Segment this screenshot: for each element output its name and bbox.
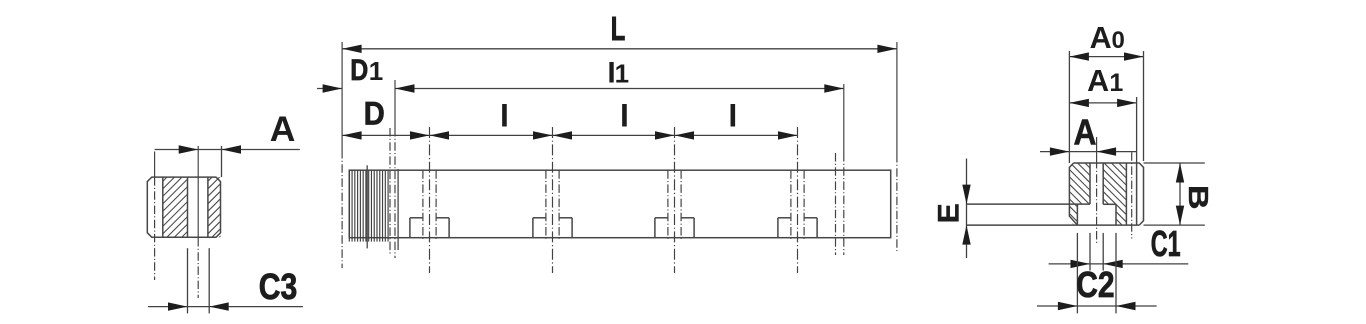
hole 3 wall hidden lines: [667, 170, 669, 241]
dimension A (right view): [1040, 151, 1137, 153]
dimension E: [966, 159, 968, 259]
dimension B: [1179, 163, 1181, 225]
dimension C3: [148, 306, 303, 308]
svg-text:L: L: [611, 11, 626, 48]
hole 4 wall hidden lines: [790, 170, 792, 241]
hole 3 counterbore tabs: [654, 218, 656, 238]
svg-text:I: I: [500, 97, 509, 133]
small hole right wall: [1136, 163, 1138, 225]
L extension right: [896, 42, 898, 154]
hole 1 wall hidden lines: [422, 170, 424, 241]
dimension C2: [1037, 305, 1157, 307]
slot right step: [1103, 203, 1116, 205]
svg-text:D: D: [350, 54, 368, 87]
left view: inner wall line: [162, 177, 164, 237]
thread boundary line 2: [397, 169, 399, 250]
hole 2 wall hidden lines: [545, 170, 547, 241]
rail section outline: [1074, 163, 1144, 225]
main hole left wall: [1089, 163, 1091, 204]
svg-text:I: I: [728, 97, 737, 133]
extension lines C2: [1076, 233, 1078, 314]
svg-text:A: A: [1087, 64, 1109, 98]
B extension top: [1144, 162, 1205, 164]
svg-text:I: I: [620, 97, 629, 133]
dimension l1: [395, 88, 844, 90]
plate top edge: [967, 203, 1091, 205]
svg-text:C1: C1: [1151, 223, 1181, 264]
hole 1 counterbore tabs: [409, 218, 411, 238]
small hole centerline: [1131, 152, 1133, 238]
extension lines for C3: [187, 248, 189, 313]
thread hatching at rail left end: [349, 170, 388, 242]
svg-text:C2: C2: [1076, 264, 1114, 305]
svg-text:A: A: [270, 109, 296, 149]
plate and rail bottom edge: [967, 224, 1140, 226]
dimension C1: [1049, 263, 1189, 265]
main hole centerline: [1096, 137, 1098, 160]
svg-text:C3: C3: [259, 266, 298, 307]
extension lines C1: [1089, 233, 1091, 271]
main hole right wall: [1102, 163, 1104, 204]
hole 3 centerline: [674, 127, 676, 273]
slot left wall: [1076, 204, 1078, 225]
hole 2 counterbore tabs: [532, 218, 534, 238]
hole 4 counterbore tabs: [777, 218, 779, 238]
small hole left wall: [1125, 163, 1127, 225]
left view: slot centerline: [154, 152, 156, 178]
dimension D1 left arrow: [317, 88, 342, 90]
dimension A1: [1069, 102, 1136, 104]
extension line for A right: [221, 146, 223, 177]
centerline left pair a: [389, 128, 391, 255]
svg-text:0: 0: [1112, 27, 1125, 54]
dimension D and pitch l chain: [342, 134, 797, 136]
svg-text:B: B: [1183, 185, 1214, 210]
rail outline: [349, 170, 890, 238]
B extension bottom: [1144, 224, 1205, 226]
extension A0/A1/A left: [1068, 51, 1070, 163]
thread boundary line 1: [366, 165, 368, 248]
hole 1 centerline: [429, 127, 431, 273]
extension A1 right: [1136, 97, 1138, 163]
left view: hole left wall: [187, 177, 189, 237]
svg-text:A: A: [1074, 111, 1097, 152]
svg-text:1: 1: [1109, 69, 1123, 97]
L extension left: [341, 42, 343, 150]
left view: hole right wall: [207, 177, 209, 237]
centerline right pair a: [835, 153, 837, 255]
svg-text:D: D: [364, 96, 385, 132]
svg-text:A: A: [1090, 21, 1112, 55]
slot right wall: [1115, 204, 1117, 225]
svg-text:E: E: [932, 203, 965, 223]
dimension A (left view): [155, 149, 300, 151]
left view: nut block outline: [147, 177, 220, 237]
hole 4 centerline: [797, 127, 799, 273]
hole 2 centerline: [552, 127, 554, 273]
extension A0 right: [1143, 51, 1145, 161]
svg-text:1: 1: [369, 56, 383, 86]
dimension A0: [1069, 56, 1143, 58]
centerline left pair b / l1 extension: [394, 80, 396, 128]
centerline right pair b / l1 extension: [843, 84, 845, 153]
dimension L: [342, 48, 897, 50]
left view: hole centerline / extension: [197, 146, 199, 238]
svg-text:1: 1: [615, 58, 629, 88]
